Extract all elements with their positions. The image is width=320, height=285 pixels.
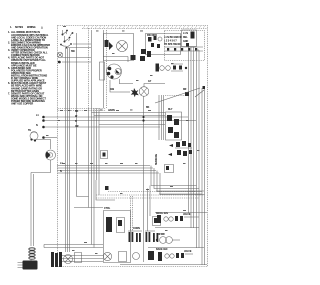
box component dark bar [106,217,112,232]
wire left of igniter [110,80,120,92]
switch leads up [63,30,73,41]
vertical wire pair console to bottom [92,108,100,248]
svg-text:VALVE: VALVE [184,250,192,253]
top right dashed box [165,31,205,61]
svg-text:XFMR: XFMR [158,233,165,236]
svg-text:RLY: RLY [168,108,173,111]
top right terminal box [182,30,197,47]
console bottom dashed divider [58,109,107,111]
console wiring to bus [62,44,91,62]
inner console component box [100,62,105,80]
svg-text:CTRL: CTRL [104,207,111,210]
igniter row A wires [155,213,207,228]
connector pins P1 [131,55,146,61]
svg-text:GND: GND [183,40,188,43]
power cord twin leads [31,173,34,247]
connector cluster below board [141,49,151,57]
junction dots on bus [142,116,144,122]
lock motor housing box [104,34,134,61]
scattered wire color labels [46,26,200,254]
cord ferrite rings [29,248,35,259]
svg-text:VALVE: VALVE [183,213,191,216]
connector bank 1 [128,231,142,242]
oven light L1 [57,52,63,63]
far right verticals [202,88,205,265]
svg-text:DR: DR [183,88,187,91]
transformer T1 [156,237,180,244]
wire across box top [74,207,103,209]
wire label tags [60,80,187,236]
short verticals into cluster [159,95,164,140]
svg-text:BAKE IGN: BAKE IGN [156,248,168,251]
small mark near console bottom [105,186,109,190]
bottom left harness wires [44,245,103,262]
bottom center control box [104,211,131,263]
svg-text:BK: BK [75,110,79,113]
svg-text:TH: TH [28,129,31,132]
tag on feed [185,92,189,96]
selector switch S3 [66,43,72,48]
svg-text:GY: GY [148,80,152,83]
power cord plug [18,260,38,270]
notes header [10,26,43,29]
terminal leads from cord [44,244,70,252]
igniter row B wires [120,248,207,265]
wire feeds into bottom center [148,186,151,232]
console dashed divider vertical 2 [106,30,108,108]
connector circle [133,253,140,260]
clock connector CN1 [105,40,109,47]
oven thermostat TH1 [28,129,38,142]
svg-text:REL: REL [183,36,188,39]
terminal block TB [51,252,62,267]
wire vertical x80 [77,33,89,197]
main horizontal harness bus [44,113,196,138]
selector switch S1 [62,30,68,36]
svg-text:WIRING: WIRING [27,26,36,29]
blower motor M6 [107,64,122,79]
latch motor M1 [117,41,128,52]
svg-text:NOTES: NOTES [15,26,23,29]
svg-text:TR SPK SW NC: TR SPK SW NC [164,43,181,46]
left terminal dots [36,114,45,139]
connector dark cluster [148,251,154,260]
right vertical bus outer [197,50,200,248]
svg-text:△: △ [40,26,43,29]
spark switch box [165,165,174,173]
svg-text:DSI MOD: DSI MOD [147,34,157,37]
diagonal leader wires [155,88,204,103]
small junction box [75,253,82,263]
igniter row A labels [156,212,192,223]
svg-text:OR: OR [75,125,79,128]
verticals joining lower bus [156,191,204,194]
igniter spark symbol [120,88,139,97]
svg-text:SURFACE: SURFACE [155,153,158,165]
door switch component [101,151,108,159]
lower dashed bus [96,192,204,199]
svg-text:CONN: CONN [133,227,140,230]
mid horizontal bus [57,166,159,174]
center vertical wire [143,97,145,263]
convection motor M2 [139,87,149,97]
latch switch arrow [109,42,113,50]
svg-text:UNIT USE COPPER: UNIT USE COPPER [11,102,33,106]
outer dashed cabinet border [58,26,208,267]
bottom left motor M4 [64,255,73,264]
dashed verticals center low [131,196,133,231]
svg-text:IGN: IGN [110,88,114,91]
door lock motor M3 [46,150,56,160]
motor lead down to cord [31,160,51,173]
switch cluster extra contacts [60,44,62,46]
bus corner staircase down [151,166,205,195]
corner at left of lower bus [96,180,115,200]
second dashed top border line [82,28,207,30]
oven relay cluster mid right [166,112,182,140]
svg-text:HARN: HARN [108,109,115,112]
thermostat wiring [36,140,51,150]
notes paragraph text block [8,30,50,105]
junction tag right border [203,86,206,89]
control board components [147,34,203,51]
wire left vertical bus [66,48,70,247]
surface burner cluster [168,141,192,156]
spark module box [153,217,161,226]
junction dot [58,61,60,63]
connector bank 2 [145,231,158,242]
selector switch S2 [64,37,71,43]
wire right bend top [188,47,199,50]
wire vertical x88 solid [88,108,90,208]
control board box [146,34,181,55]
box small component [119,252,127,262]
hatch ticks on top border [83,26,205,29]
wire corner above motor [144,84,165,87]
svg-text:BK: BK [146,106,150,109]
svg-text:L1 N: L1 N [183,32,188,35]
box component P [117,218,125,233]
switch row contacts [156,64,188,72]
console inner box [92,30,104,108]
wire from motor to pin block [103,57,133,85]
right vertical bus [189,47,194,228]
dashed feed line right [165,95,188,97]
box motor M5 [103,252,111,260]
console dashed divider vertical [88,28,90,108]
igniter row B [156,248,193,261]
